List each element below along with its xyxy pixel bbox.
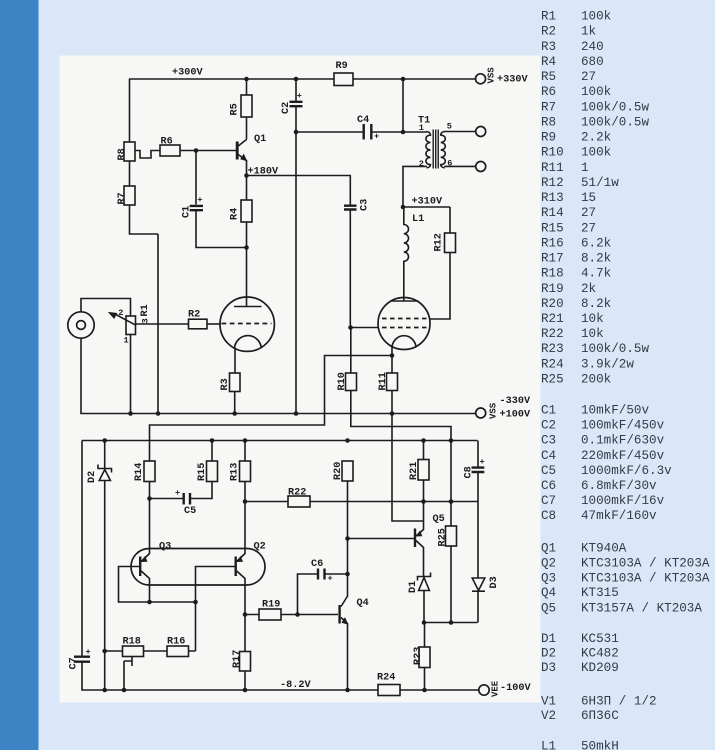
svg-text:R16: R16 (541, 236, 564, 250)
svg-text:200k: 200k (581, 373, 611, 387)
svg-text:C6: C6 (541, 479, 556, 493)
svg-text:R8: R8 (541, 115, 556, 129)
svg-text:6.2k: 6.2k (581, 236, 611, 250)
svg-text:R12: R12 (434, 233, 445, 251)
svg-text:D3: D3 (541, 661, 556, 675)
svg-text:R14: R14 (134, 463, 145, 481)
svg-text:240: 240 (581, 40, 604, 54)
svg-text:C8: C8 (541, 509, 556, 523)
svg-text:8.2k: 8.2k (581, 252, 611, 266)
svg-text:1: 1 (419, 123, 424, 133)
svg-text:C2: C2 (541, 419, 556, 433)
svg-text:R1: R1 (140, 304, 151, 316)
svg-text:2: 2 (419, 159, 424, 169)
svg-text:+180V: +180V (248, 167, 279, 178)
svg-text:47mkF/160v: 47mkF/160v (581, 509, 657, 523)
svg-text:R9: R9 (336, 61, 348, 72)
svg-text:1: 1 (124, 336, 129, 346)
svg-text:+: + (480, 457, 485, 467)
svg-text:100k: 100k (581, 85, 611, 99)
svg-text:100k: 100k (581, 10, 611, 24)
svg-text:2: 2 (118, 308, 123, 318)
svg-text:1000mkF/16v: 1000mkF/16v (581, 494, 665, 508)
svg-text:R2: R2 (541, 25, 556, 39)
svg-text:R5: R5 (230, 103, 241, 115)
svg-text:VSS: VSS (489, 402, 499, 419)
svg-text:Q1: Q1 (254, 134, 266, 145)
svg-text:L1: L1 (541, 740, 556, 750)
svg-text:R3: R3 (541, 40, 556, 54)
svg-text:50mkH: 50mkH (581, 740, 619, 750)
svg-text:R16: R16 (167, 637, 185, 648)
svg-text:C5: C5 (541, 464, 556, 478)
svg-text:R19: R19 (541, 282, 564, 296)
svg-text:-330V: -330V (500, 396, 531, 407)
svg-text:+330V: +330V (497, 75, 528, 86)
svg-text:R1: R1 (541, 10, 556, 24)
svg-text:KT940A: KT940A (581, 542, 627, 556)
svg-text:R13: R13 (541, 191, 564, 205)
svg-text:C3: C3 (541, 434, 556, 448)
svg-text:C6: C6 (311, 559, 323, 570)
svg-text:R6: R6 (541, 85, 556, 99)
svg-text:1000mkF/6.3v: 1000mkF/6.3v (581, 464, 672, 478)
svg-text:C7: C7 (69, 657, 80, 669)
svg-text:R2: R2 (188, 310, 200, 321)
svg-text:+: + (86, 647, 91, 657)
svg-text:27: 27 (581, 70, 596, 84)
svg-text:Q5: Q5 (541, 602, 556, 616)
svg-text:D1: D1 (408, 581, 419, 593)
svg-text:VEE: VEE (491, 680, 501, 697)
svg-text:5: 5 (447, 122, 452, 132)
svg-text:100k/0.5w: 100k/0.5w (581, 100, 649, 114)
svg-text:R24: R24 (377, 673, 395, 684)
svg-text:R22: R22 (288, 488, 306, 499)
svg-text:R23: R23 (541, 342, 564, 356)
svg-text:Q4: Q4 (541, 586, 556, 600)
svg-text:0.1mkF/630v: 0.1mkF/630v (581, 434, 665, 448)
svg-text:Q5: Q5 (433, 514, 445, 525)
svg-text:R24: R24 (541, 357, 564, 371)
svg-text:C4: C4 (541, 449, 556, 463)
svg-text:R17: R17 (232, 650, 243, 668)
svg-text:100k: 100k (581, 146, 611, 160)
svg-text:R5: R5 (541, 70, 556, 84)
svg-text:D1: D1 (541, 632, 556, 646)
svg-text:R14: R14 (541, 206, 564, 220)
svg-text:KD209: KD209 (581, 661, 619, 675)
svg-text:KC531: KC531 (581, 632, 619, 646)
svg-text:R10: R10 (541, 146, 564, 160)
svg-text:+: + (328, 574, 333, 584)
svg-text:Q3: Q3 (159, 542, 171, 553)
svg-text:R13: R13 (230, 463, 241, 481)
svg-text:6Н3П / 1/2: 6Н3П / 1/2 (581, 695, 657, 709)
svg-text:Q1: Q1 (541, 542, 556, 556)
svg-text:R15: R15 (197, 463, 208, 481)
svg-text:R25: R25 (541, 373, 564, 387)
svg-text:R10: R10 (337, 372, 348, 390)
svg-text:R18: R18 (541, 267, 564, 281)
svg-text:2.2k: 2.2k (581, 131, 611, 145)
svg-text:R21: R21 (409, 462, 420, 480)
svg-text:6: 6 (447, 159, 452, 169)
svg-text:8.2k: 8.2k (581, 297, 611, 311)
svg-text:R23: R23 (413, 647, 424, 665)
svg-text:15: 15 (581, 191, 596, 205)
svg-text:51/1w: 51/1w (581, 176, 619, 190)
svg-text:KTC3103A / KT203A: KTC3103A / KT203A (581, 557, 710, 571)
svg-text:100mkF/450v: 100mkF/450v (581, 419, 665, 433)
svg-text:KTC3103A / KT203A: KTC3103A / KT203A (581, 572, 710, 586)
svg-text:Q2: Q2 (254, 542, 266, 553)
svg-text:R7: R7 (117, 192, 128, 204)
svg-text:VSS: VSS (486, 67, 496, 84)
svg-text:10mkF/50v: 10mkF/50v (581, 404, 649, 418)
svg-text:10k: 10k (581, 327, 604, 341)
svg-text:D2: D2 (87, 471, 98, 483)
svg-text:KT3157A / KT203A: KT3157A / KT203A (581, 602, 702, 616)
svg-text:27: 27 (581, 221, 596, 235)
svg-text:C5: C5 (184, 506, 196, 517)
svg-text:1k: 1k (581, 25, 596, 39)
svg-text:V1: V1 (541, 695, 556, 709)
svg-text:+: + (374, 132, 379, 142)
svg-text:D3: D3 (489, 576, 500, 588)
svg-text:R20: R20 (333, 462, 344, 480)
svg-text:680: 680 (581, 55, 604, 69)
svg-text:10k: 10k (581, 312, 604, 326)
svg-text:C2: C2 (281, 102, 292, 114)
svg-text:-100V: -100V (500, 683, 531, 694)
svg-text:R6: R6 (161, 137, 173, 148)
svg-text:+100V: +100V (500, 410, 531, 421)
svg-text:R4: R4 (230, 208, 241, 220)
svg-text:4.7k: 4.7k (581, 267, 611, 281)
svg-text:R11: R11 (378, 372, 389, 390)
svg-text:3.9k/2w: 3.9k/2w (581, 357, 634, 371)
svg-text:C7: C7 (541, 494, 556, 508)
svg-text:100k/0.5w: 100k/0.5w (581, 342, 649, 356)
svg-text:V2: V2 (541, 709, 556, 723)
svg-text:27: 27 (581, 206, 596, 220)
svg-text:L1: L1 (412, 214, 424, 225)
svg-text:6П36С: 6П36С (581, 709, 619, 723)
svg-text:+300V: +300V (172, 68, 203, 79)
svg-text:2k: 2k (581, 282, 596, 296)
svg-text:100k/0.5w: 100k/0.5w (581, 115, 649, 129)
svg-text:220mkF/450v: 220mkF/450v (581, 449, 665, 463)
svg-text:3: 3 (141, 318, 151, 323)
svg-text:+: + (175, 488, 180, 498)
svg-text:R3: R3 (220, 378, 231, 390)
svg-text:R4: R4 (541, 55, 556, 69)
svg-text:1: 1 (581, 161, 589, 175)
svg-text:R7: R7 (541, 100, 556, 114)
svg-text:Q4: Q4 (357, 598, 369, 609)
svg-text:R9: R9 (541, 131, 556, 145)
svg-text:+310V: +310V (412, 197, 443, 208)
svg-text:C8: C8 (464, 466, 475, 478)
svg-text:R12: R12 (541, 176, 564, 190)
svg-text:R20: R20 (541, 297, 564, 311)
svg-text:6.8mkF/30v: 6.8mkF/30v (581, 479, 657, 493)
svg-text:C1: C1 (181, 206, 192, 218)
svg-text:+: + (197, 195, 202, 205)
svg-text:R18: R18 (123, 637, 141, 648)
svg-text:R15: R15 (541, 221, 564, 235)
svg-text:KC482: KC482 (581, 647, 619, 661)
svg-text:-8.2V: -8.2V (280, 680, 311, 691)
svg-text:R8: R8 (117, 148, 128, 160)
svg-text:C4: C4 (357, 115, 369, 126)
svg-text:R11: R11 (541, 161, 564, 175)
svg-text:C1: C1 (541, 404, 556, 418)
svg-text:R17: R17 (541, 252, 564, 266)
svg-text:R22: R22 (541, 327, 564, 341)
svg-text:R19: R19 (262, 600, 280, 611)
svg-text:Q3: Q3 (541, 572, 556, 586)
svg-text:C3: C3 (359, 199, 370, 211)
svg-text:D2: D2 (541, 647, 556, 661)
svg-text:R21: R21 (541, 312, 564, 326)
svg-text:+: + (297, 91, 302, 101)
svg-text:KT315: KT315 (581, 586, 619, 600)
svg-text:R25: R25 (438, 528, 449, 546)
svg-text:Q2: Q2 (541, 557, 556, 571)
